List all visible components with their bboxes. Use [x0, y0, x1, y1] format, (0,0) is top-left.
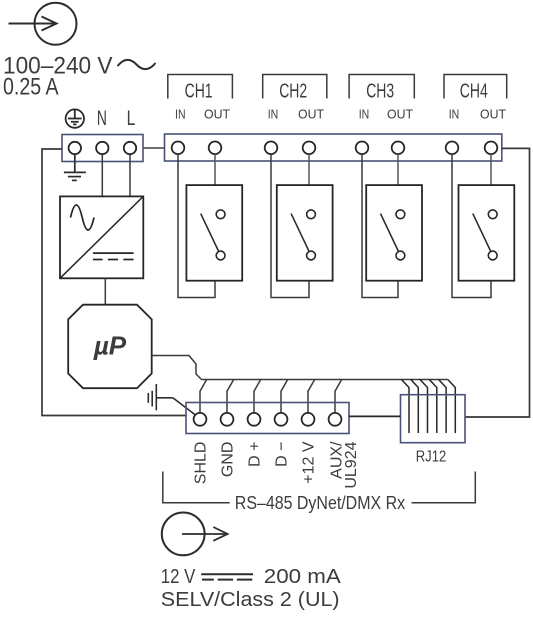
terminal +12V — [302, 413, 315, 426]
terminal N — [96, 142, 108, 154]
bracket CH2 — [263, 75, 327, 99]
svg-text:OUT: OUT — [298, 107, 324, 122]
RS-485 terminal block — [186, 403, 349, 434]
svg-text:UL924: UL924 — [343, 441, 360, 488]
svg-text:RJ12: RJ12 — [416, 449, 447, 466]
wire OUT4 — [490, 154, 492, 185]
svg-text:IN: IN — [359, 107, 370, 122]
terminal PE — [69, 142, 81, 154]
svg-text:IN: IN — [175, 107, 186, 122]
wire L to PSU — [129, 154, 131, 196]
wire drop AUX — [335, 380, 342, 414]
microprocessor U2 — [68, 305, 152, 389]
relay K2 — [277, 185, 333, 281]
svg-text:12 V: 12 V — [161, 566, 196, 588]
power input symbol — [9, 3, 77, 45]
terminal IN4 — [446, 142, 459, 155]
channel terminal block — [165, 134, 502, 161]
bracket CH3 — [349, 75, 414, 99]
wire drop SHLD — [200, 380, 207, 414]
svg-text:IN: IN — [268, 107, 279, 122]
terminal L — [124, 142, 136, 154]
wire IN4 — [452, 154, 491, 297]
terminal GND — [221, 413, 234, 426]
wire drop +12V — [308, 380, 315, 414]
svg-text:200 mA: 200 mA — [264, 566, 342, 588]
power output symbol — [162, 513, 228, 556]
terminal IN2 — [265, 142, 278, 155]
wire drop GND — [227, 380, 234, 414]
terminal IN1 — [172, 142, 185, 155]
wire comb 6 — [448, 380, 456, 434]
wire comb 1 — [402, 380, 410, 434]
svg-text:D +: D + — [246, 442, 263, 467]
wire block link — [143, 147, 165, 149]
svg-text:D −: D − — [273, 442, 290, 467]
wire left chassis loop — [42, 149, 186, 416]
svg-text:L: L — [127, 106, 136, 130]
wire PSU to uP — [104, 278, 106, 304]
terminal OUT2 — [303, 142, 316, 155]
mains terminal block — [62, 135, 143, 162]
AC symbol — [118, 60, 156, 69]
svg-text:+12 V: +12 V — [300, 441, 317, 484]
terminal IN3 — [356, 142, 369, 155]
terminal OUT3 — [392, 142, 405, 155]
svg-text:GND: GND — [219, 442, 236, 478]
wire OUT3 — [397, 154, 399, 185]
wire OUT2 — [308, 154, 310, 185]
wire comb 3 — [420, 380, 428, 434]
wire AUX to RJ12 — [349, 415, 401, 417]
wire IN3 — [362, 154, 398, 297]
bracket RS-485 left — [163, 472, 230, 503]
wire N to PSU — [101, 154, 103, 196]
DC symbol — [201, 574, 253, 579]
terminal D- — [275, 413, 288, 426]
power supply U1 — [60, 196, 143, 278]
svg-text:OUT: OUT — [204, 107, 230, 122]
svg-text:N: N — [97, 106, 107, 130]
svg-text:0.25 A: 0.25 A — [3, 74, 59, 101]
wire comb 4 — [429, 380, 437, 434]
svg-text:CH4: CH4 — [460, 80, 488, 103]
svg-text:OUT: OUT — [387, 107, 413, 122]
label AUX/UL924 — [329, 441, 361, 489]
wire uP to bus — [152, 356, 202, 380]
svg-text:SELV/Class 2 (UL): SELV/Class 2 (UL) — [161, 589, 340, 611]
terminal OUT4 — [485, 142, 498, 155]
earth ground symbol — [64, 154, 86, 180]
svg-text:OUT: OUT — [480, 107, 506, 122]
terminal D+ — [248, 413, 261, 426]
bracket RS-485 right — [412, 472, 476, 503]
bracket CH4 — [444, 75, 507, 99]
relay K4 — [459, 185, 515, 281]
svg-text:CH2: CH2 — [279, 80, 307, 103]
signal bus wire — [202, 379, 448, 381]
svg-text:RS–485 DyNet/DMX Rx: RS–485 DyNet/DMX Rx — [235, 493, 405, 513]
wire drop D- — [281, 380, 288, 414]
wire comb 2 — [411, 380, 419, 434]
RJ12 connector — [401, 395, 466, 443]
svg-text:CH1: CH1 — [185, 80, 213, 103]
relay K3 — [366, 185, 422, 281]
relay K1 — [186, 185, 242, 281]
terminal SHLD — [194, 413, 207, 426]
terminal OUT1 — [209, 142, 222, 155]
svg-text:µP: µP — [93, 331, 127, 361]
protective earth symbol — [66, 109, 84, 127]
wire right chassis loop — [465, 148, 530, 417]
svg-text:IN: IN — [449, 107, 460, 122]
wire IN2 — [271, 154, 309, 297]
wire comb 5 — [439, 380, 447, 434]
bracket CH1 — [168, 75, 233, 99]
wire IN1 — [178, 154, 215, 297]
chassis ground — [148, 384, 195, 415]
wire drop D+ — [254, 380, 261, 414]
svg-text:SHLD: SHLD — [192, 442, 209, 485]
terminal AUX — [329, 413, 342, 426]
wire OUT1 — [214, 154, 216, 185]
svg-text:CH3: CH3 — [366, 80, 394, 103]
